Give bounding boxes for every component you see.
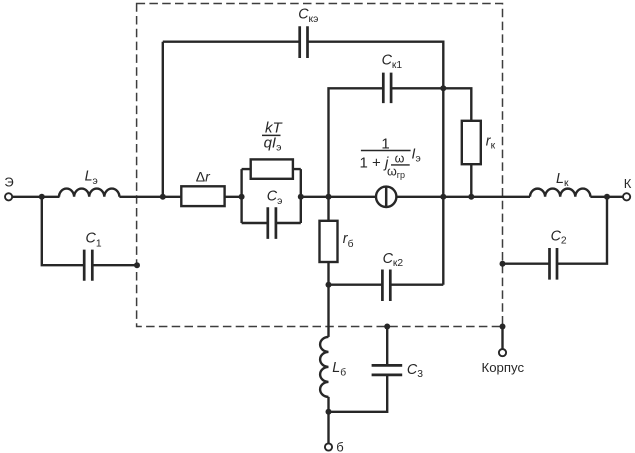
node: Cк1 / rк / feedback junction	[440, 85, 446, 91]
label Lб	[332, 360, 346, 378]
svg-text:ω: ω	[395, 152, 405, 166]
label Δr	[196, 168, 211, 184]
capacitor C2	[550, 248, 558, 280]
svg-text:Cэ: Cэ	[267, 189, 283, 208]
wire: base spine down through case border to L_б	[327, 285, 329, 337]
terminal б	[325, 443, 332, 450]
inductor Lб	[320, 337, 328, 397]
svg-text:Lк: Lк	[556, 171, 569, 189]
svg-text:б: б	[336, 439, 343, 453]
label current source 1/(1+jω/ωгр) Iэ	[360, 136, 421, 180]
label kT/qIэ (fraction)	[262, 119, 283, 153]
current source (circle with bar)	[376, 187, 396, 207]
capacitor Cкэ	[300, 26, 308, 58]
node: C3 meets case border	[384, 324, 390, 330]
label Cэ	[267, 189, 283, 208]
wire: L_б to б terminal	[327, 397, 329, 443]
node: C2 meets case border	[500, 261, 506, 267]
wire: C3 bottom branch	[329, 375, 388, 412]
svg-text:К: К	[624, 176, 632, 191]
wire: Cк2 branch	[329, 284, 444, 286]
label К	[624, 176, 632, 191]
svg-text:rк: rк	[486, 134, 496, 152]
svg-text:Lэ: Lэ	[85, 169, 98, 187]
label Э	[4, 174, 13, 189]
terminal Корпус	[499, 349, 506, 356]
svg-text:Cк1: Cк1	[382, 53, 403, 71]
wire: top feedback line right of Cкэ, down to Cк1 node	[308, 42, 444, 89]
terminal Э	[5, 193, 12, 200]
label C1	[86, 231, 102, 250]
wire: Cк1 right to node	[391, 87, 443, 89]
node: Cк1 vertical meets main line	[440, 194, 446, 200]
label C3	[407, 362, 423, 380]
label Корпус	[482, 360, 525, 375]
inductor Lэ	[59, 189, 119, 197]
node: base spine junction on main line	[326, 194, 332, 200]
node: case corner junction (Корпус)	[500, 324, 506, 330]
capacitor Cк1	[383, 73, 391, 104]
svg-text:qIэ: qIэ	[264, 134, 282, 153]
svg-text:Cк2: Cк2	[383, 251, 404, 269]
wire: vertical from main line down to Cк2	[442, 197, 444, 285]
svg-text:rб: rб	[343, 231, 354, 250]
wire: rк branch (right then down)	[443, 88, 471, 197]
wire: C3 top to case border	[386, 327, 388, 366]
node: right node of parallel RC	[298, 194, 304, 200]
label Lэ	[85, 169, 98, 187]
svg-text:ωгр: ωгр	[387, 165, 405, 180]
resistor rб	[320, 221, 338, 262]
node: rб / Cк2 / base junction	[326, 282, 332, 288]
wire: vertical up from emitter line to top feedback wire	[162, 42, 164, 197]
wire: vertical up from main line to Cк1	[329, 88, 384, 197]
node: C1 to case border	[134, 262, 140, 268]
svg-text:1 + j: 1 + j	[360, 154, 389, 171]
wire: Э terminal to L_э	[12, 196, 59, 198]
svg-text:Δr: Δr	[196, 168, 211, 184]
wire: RC to current source	[301, 196, 375, 198]
label rк	[486, 134, 496, 152]
svg-text:C2: C2	[551, 229, 567, 247]
wire: top feedback line left of Cкэ	[163, 41, 300, 43]
wire: current source to L_к	[397, 196, 530, 198]
label Cк2	[383, 251, 404, 269]
wire: case border to Корпус terminal	[501, 327, 503, 350]
wire: L_к to К terminal	[590, 196, 623, 198]
node: rк meets main line	[468, 194, 474, 200]
wire: C1 branch (down from emitter junction, right to case border)	[42, 197, 137, 265]
wire: L_э to Δr	[119, 196, 181, 198]
resistor Δr	[181, 186, 224, 206]
resistor rк	[462, 121, 481, 164]
wire: parallel RC loop frame	[242, 169, 301, 223]
node: base / C3 bottom junction	[326, 409, 332, 415]
resistor kT/qIэ	[251, 159, 293, 178]
svg-text:Lб: Lб	[332, 360, 346, 378]
svg-text:Cкэ: Cкэ	[298, 7, 318, 26]
wire: rб branch vertical	[327, 197, 329, 285]
svg-text:C1: C1	[86, 231, 102, 250]
wire: Δr to parallel RC	[225, 196, 242, 198]
node: emitter input junction	[39, 194, 45, 200]
label Lк	[556, 171, 569, 189]
capacitor Cэ	[268, 207, 276, 239]
label rб	[343, 231, 354, 250]
node: left node of parallel RC	[239, 194, 245, 200]
svg-text:Iэ: Iэ	[412, 146, 421, 164]
node: junction at x=162.8 on emitter line	[160, 194, 166, 200]
case outline (dashed box)	[137, 4, 503, 327]
inductor Lк	[530, 189, 590, 197]
node: C2 meets collector line	[604, 194, 610, 200]
capacitor C3	[372, 365, 403, 375]
wire: vertical from Cк1 node down to main line	[442, 88, 444, 197]
terminal К	[623, 193, 630, 200]
svg-text:C3: C3	[407, 362, 423, 380]
label Cкэ	[298, 7, 318, 26]
capacitor Cк2	[382, 270, 390, 302]
svg-text:Э: Э	[4, 174, 13, 189]
label Cк1	[382, 53, 403, 71]
svg-text:Корпус: Корпус	[482, 360, 525, 375]
label C2	[551, 229, 567, 247]
wire: C2 branch	[503, 197, 608, 264]
capacitor C1	[84, 250, 92, 281]
label б	[336, 439, 343, 453]
